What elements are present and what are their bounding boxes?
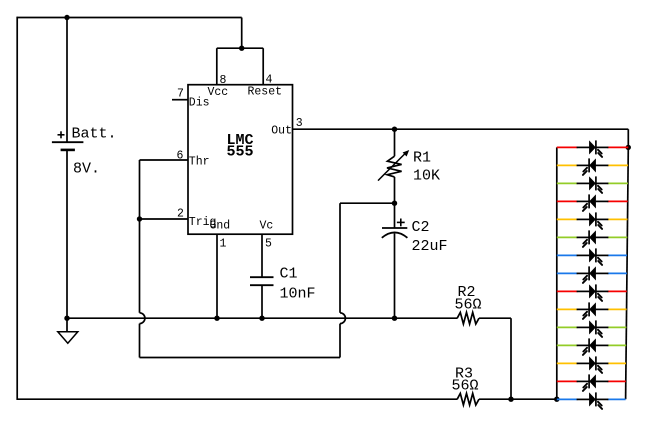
- node junction R2/R3: [508, 397, 513, 402]
- wire R2 right lead: [479, 317, 511, 319]
- wire battery top lead: [66, 18, 68, 143]
- wire pin 7 stub: [172, 99, 188, 101]
- LED D9 red row (pointing right): [557, 290, 578, 292]
- node junction R1/C2: [392, 201, 397, 206]
- wire pin 2 stub: [140, 218, 189, 220]
- svg-text:8V.: 8V.: [73, 161, 100, 178]
- battery B1 short plate: [61, 149, 75, 152]
- node junction top-rail/battery: [64, 15, 69, 20]
- capacitor C2 plus sign: [397, 221, 405, 223]
- wire R3 right lead: [479, 398, 511, 400]
- resistor R2 zigzag: [457, 312, 479, 324]
- LED D3 green row (pointing right): [557, 182, 578, 184]
- svg-text:5: 5: [265, 238, 272, 251]
- svg-text:7: 7: [177, 88, 184, 101]
- svg-text:56Ω: 56Ω: [455, 297, 482, 314]
- svg-text:Out: Out: [271, 125, 292, 138]
- svg-text:C1: C1: [280, 266, 298, 283]
- node junction out/LED rail: [626, 145, 631, 150]
- resistor R1 zigzag: [387, 156, 402, 177]
- LED D13 amber row (pointing right): [557, 362, 578, 364]
- node junction C2/bus: [392, 316, 397, 321]
- capacitor C1: [250, 276, 274, 278]
- LED D10 amber row (pointing left): [557, 308, 578, 310]
- wire battery bottom lead: [66, 150, 68, 318]
- wire node to LED rail: [511, 398, 557, 400]
- node junction battery/ground bus: [64, 316, 69, 321]
- svg-text:6: 6: [177, 150, 184, 163]
- svg-text:2: 2: [177, 208, 184, 221]
- svg-text:Dis: Dis: [189, 96, 210, 109]
- svg-text:Thr: Thr: [189, 156, 210, 169]
- battery B1 long plate: [52, 141, 84, 143]
- svg-text:56Ω: 56Ω: [452, 378, 479, 395]
- svg-text:1: 1: [220, 238, 227, 251]
- LED D8 blue row (pointing left): [557, 272, 578, 274]
- wire hop over bus right: [340, 313, 345, 324]
- LED D5 amber row (pointing right): [557, 218, 578, 220]
- wire R1 bottom lead: [394, 177, 396, 203]
- wire loop bottom: [140, 357, 341, 359]
- node junction bridge: [239, 46, 244, 51]
- wire pin8-pin4 bridge: [217, 47, 263, 49]
- wire C2 top lead: [394, 203, 396, 228]
- svg-text:10K: 10K: [413, 168, 440, 185]
- wire bottom rail: [17, 398, 458, 400]
- wire pin 8 stub: [216, 48, 218, 84]
- LED D12 green row (pointing left): [557, 344, 578, 346]
- wire thr-trig vertical: [139, 160, 141, 313]
- LED D4 red row (pointing left): [557, 200, 578, 202]
- wire LED right rail: [627, 129, 629, 147]
- wire R1 top lead: [394, 129, 396, 156]
- LED D11 green row (pointing right): [557, 326, 578, 328]
- svg-text:Vcc: Vcc: [208, 86, 229, 99]
- LED D6 green row (pointing left): [557, 236, 578, 238]
- op-amp U1 LMC555 body: [188, 85, 293, 235]
- svg-text:10nF: 10nF: [280, 286, 316, 303]
- wire loop right vertical lower: [339, 324, 341, 358]
- wire pin 3 out: [293, 128, 629, 130]
- LED D1 red row (pointing right): [557, 146, 578, 148]
- LED D14 red row (pointing left): [557, 380, 578, 382]
- svg-text:22uF: 22uF: [412, 238, 448, 255]
- wire loop right vertical upper: [339, 203, 341, 313]
- svg-text:Gnd: Gnd: [210, 220, 231, 233]
- svg-text:Reset: Reset: [248, 86, 283, 99]
- wire pin 6 stub: [140, 159, 189, 161]
- node junction pin1/bus: [214, 316, 219, 321]
- capacitor C2 curved plate: [382, 232, 408, 237]
- wire C2 bottom lead: [394, 233, 396, 318]
- battery B1 plus sign: [58, 134, 65, 136]
- wire below hop: [139, 324, 141, 358]
- node junction LED left rail: [554, 397, 559, 402]
- wire left rail: [16, 17, 18, 400]
- capacitor C2 top plate: [382, 227, 407, 229]
- ground symbol: [66, 318, 68, 332]
- wire pin 4 stub: [262, 48, 264, 84]
- node junction out/R1: [392, 127, 397, 132]
- wire pin 1 stub: [216, 234, 218, 318]
- wire ground bus: [67, 317, 457, 319]
- LED D7 blue row (pointing right): [557, 254, 578, 256]
- svg-text:R1: R1: [413, 150, 431, 167]
- wire pin 5 stub: [261, 234, 263, 277]
- LED D2 amber row (pointing left): [557, 164, 578, 166]
- wire hop over bus left: [140, 313, 145, 324]
- wire LED left rail: [556, 147, 558, 399]
- wire C1 bottom lead: [261, 285, 263, 318]
- wire R2 down to node: [510, 318, 512, 399]
- node junction trig: [137, 216, 142, 221]
- svg-text:Vc: Vc: [260, 220, 274, 233]
- svg-text:C2: C2: [412, 219, 430, 236]
- svg-text:555: 555: [226, 144, 253, 161]
- wire loop top to C2 node: [340, 202, 395, 204]
- svg-text:3: 3: [296, 117, 303, 130]
- svg-text:Batt.: Batt.: [72, 126, 117, 143]
- resistor R1 wiper arrow: [378, 153, 406, 181]
- wire top rail drop to IC bridge: [241, 18, 243, 49]
- LED D15 blue row (pointing right): [557, 398, 578, 400]
- wire top rail: [17, 17, 242, 19]
- node junction C1/bus: [259, 316, 264, 321]
- resistor R3 zigzag: [457, 393, 479, 405]
